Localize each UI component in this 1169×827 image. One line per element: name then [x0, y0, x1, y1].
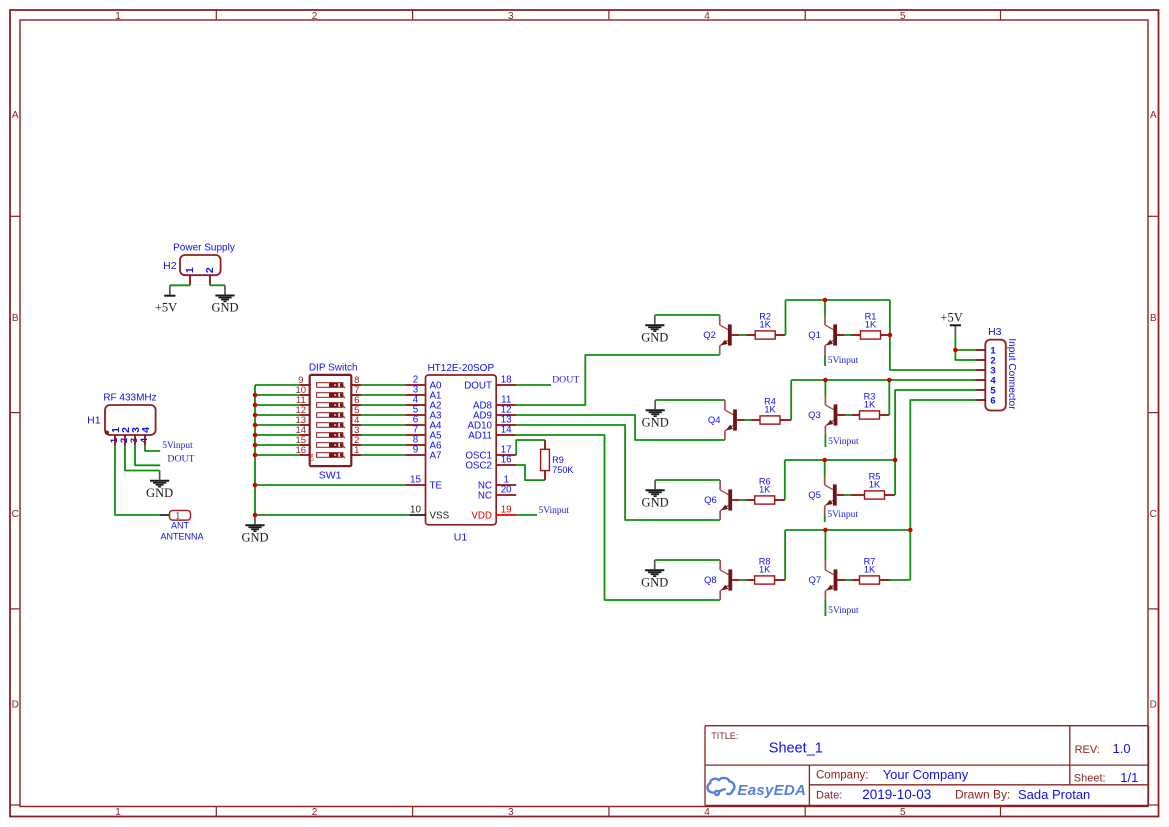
svg-text:1: 1 [115, 11, 121, 22]
svg-text:1K: 1K [764, 404, 776, 414]
svg-text:Drawn By:: Drawn By: [955, 788, 1010, 802]
svg-text:VSS: VSS [430, 510, 450, 521]
svg-text:NC: NC [478, 490, 492, 501]
svg-text:1K: 1K [864, 399, 876, 409]
svg-text:15: 15 [410, 475, 421, 486]
svg-text:GND: GND [642, 415, 669, 429]
svg-text:4: 4 [704, 11, 710, 22]
svg-text:Sheet:: Sheet: [1074, 773, 1106, 785]
svg-text:750K: 750K [552, 465, 574, 475]
svg-text:VDD: VDD [471, 510, 492, 521]
svg-text:EasyEDA: EasyEDA [737, 782, 806, 799]
svg-text:5Vinput: 5Vinput [827, 510, 858, 520]
svg-text:4: 4 [704, 807, 710, 818]
svg-text:+5V: +5V [940, 311, 962, 325]
svg-text:Q3: Q3 [808, 410, 821, 421]
svg-text:SW1: SW1 [319, 469, 342, 481]
svg-text:Q8: Q8 [704, 575, 717, 586]
svg-text:Power Supply: Power Supply [173, 242, 235, 253]
svg-text:5Vinput: 5Vinput [162, 441, 193, 451]
svg-text:Sheet_1: Sheet_1 [769, 741, 823, 757]
svg-text:1K: 1K [864, 564, 876, 574]
svg-text:U1: U1 [454, 532, 468, 544]
svg-text:REV:: REV: [1075, 744, 1100, 756]
svg-text:+5V: +5V [155, 301, 177, 315]
svg-text:Q6: Q6 [704, 495, 717, 506]
svg-text:3: 3 [508, 11, 514, 22]
svg-text:H2: H2 [163, 260, 177, 272]
svg-text:A: A [12, 110, 19, 121]
svg-text:5: 5 [900, 807, 906, 818]
svg-text:ANTENNA: ANTENNA [160, 531, 203, 541]
svg-text:A7: A7 [430, 450, 442, 461]
svg-text:H3: H3 [988, 326, 1002, 338]
svg-text:Company:: Company: [816, 769, 868, 781]
svg-text:5Vinput: 5Vinput [828, 606, 859, 616]
svg-text:2019-10-03: 2019-10-03 [862, 787, 931, 802]
svg-text:16: 16 [296, 445, 307, 456]
svg-text:2: 2 [312, 11, 318, 22]
svg-text:3: 3 [508, 807, 514, 818]
svg-text:6: 6 [990, 395, 995, 406]
svg-text:GND: GND [642, 495, 669, 509]
svg-text:AD11: AD11 [468, 430, 492, 441]
svg-text:C: C [1150, 509, 1157, 520]
svg-text:D: D [1150, 699, 1157, 710]
svg-text:10: 10 [410, 505, 421, 516]
svg-text:1K: 1K [759, 319, 771, 329]
svg-text:B: B [12, 313, 19, 324]
svg-text:18: 18 [501, 375, 512, 386]
svg-text:D: D [12, 699, 19, 710]
svg-text:1/1: 1/1 [1120, 770, 1138, 785]
svg-text:5Vinput: 5Vinput [539, 506, 570, 516]
svg-text:ANT: ANT [171, 520, 190, 530]
svg-text:5Vinput: 5Vinput [828, 356, 859, 366]
svg-text:GND: GND [211, 301, 238, 315]
svg-text:Q7: Q7 [808, 575, 821, 586]
svg-text:5: 5 [900, 11, 906, 22]
svg-text:DOUT: DOUT [167, 453, 194, 464]
svg-text:Input Connector: Input Connector [1006, 338, 1017, 410]
svg-text:Sada Protan: Sada Protan [1018, 787, 1090, 802]
svg-text:4: 4 [140, 427, 152, 433]
svg-text:A: A [1150, 110, 1157, 121]
svg-text:19: 19 [501, 505, 512, 516]
svg-text:TE: TE [430, 480, 443, 491]
svg-text:TITLE:: TITLE: [711, 731, 738, 741]
svg-text:GND: GND [641, 330, 668, 344]
svg-text:B: B [1150, 313, 1157, 324]
svg-text:GND: GND [641, 575, 668, 589]
svg-text:2: 2 [312, 807, 318, 818]
svg-text:1: 1 [115, 807, 121, 818]
svg-text:ON: ON [309, 453, 315, 461]
svg-text:1K: 1K [869, 479, 881, 489]
svg-text:C: C [12, 509, 19, 520]
svg-text:1.0: 1.0 [1113, 741, 1131, 756]
svg-text:GND: GND [146, 486, 173, 500]
svg-text:1K: 1K [759, 484, 771, 494]
svg-text:H1: H1 [87, 415, 101, 427]
svg-text:5Vinput: 5Vinput [828, 437, 859, 447]
svg-text:Q4: Q4 [708, 415, 721, 426]
svg-text:Your Company: Your Company [883, 767, 969, 782]
svg-text:1K: 1K [759, 564, 771, 574]
svg-text:9: 9 [413, 445, 418, 456]
svg-text:OSC2: OSC2 [465, 460, 492, 471]
svg-text:Q5: Q5 [808, 490, 821, 501]
svg-text:1: 1 [184, 267, 196, 273]
svg-text:R9: R9 [552, 455, 564, 465]
svg-text:1: 1 [354, 445, 359, 456]
svg-text:DOUT: DOUT [552, 375, 579, 386]
svg-text:Q1: Q1 [808, 330, 821, 341]
svg-text:14: 14 [501, 425, 512, 436]
svg-text:RF 433MHz: RF 433MHz [103, 393, 156, 404]
svg-text:16: 16 [501, 455, 512, 466]
svg-text:Date:: Date: [816, 789, 842, 801]
svg-text:GND: GND [241, 530, 268, 544]
svg-text:1K: 1K [865, 319, 877, 329]
svg-text:20: 20 [501, 485, 512, 496]
svg-text:Q2: Q2 [703, 330, 716, 341]
svg-text:HT12E-20SOP: HT12E-20SOP [427, 363, 494, 374]
svg-text:DIP Switch: DIP Switch [309, 362, 358, 373]
svg-text:DOUT: DOUT [464, 380, 492, 391]
svg-text:2: 2 [204, 267, 216, 273]
